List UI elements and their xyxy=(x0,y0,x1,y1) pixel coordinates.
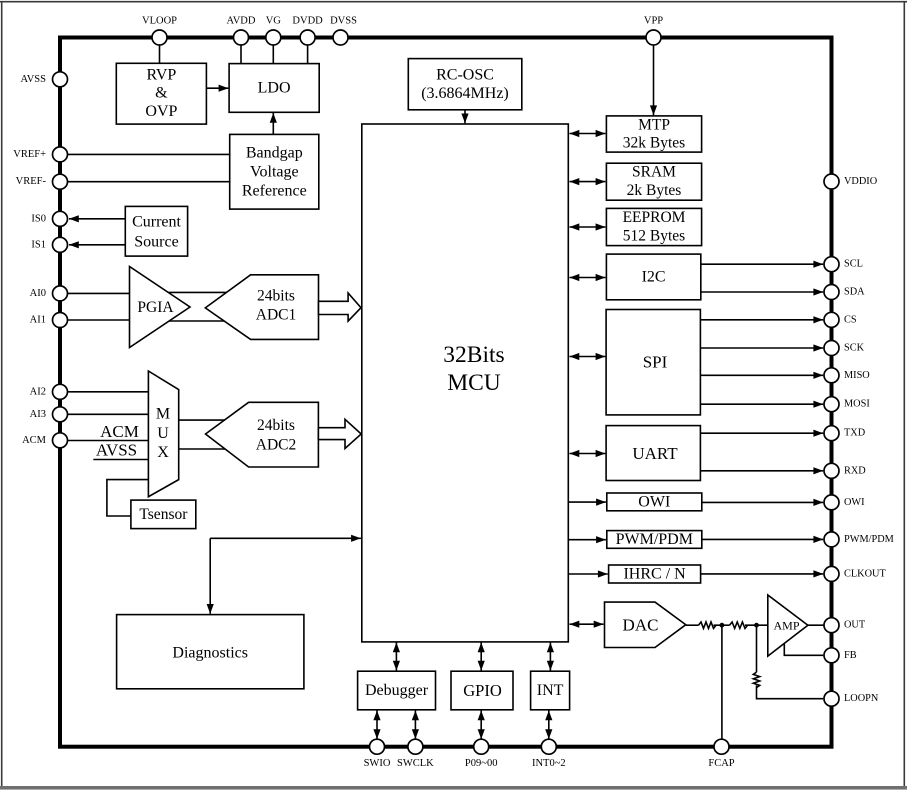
pin FCAP xyxy=(714,739,729,754)
svg-text:IS0: IS0 xyxy=(31,213,46,224)
svg-text:AVSS: AVSS xyxy=(96,441,137,460)
block 32Bits MCU xyxy=(362,124,569,642)
resistor R3 xyxy=(753,672,759,687)
arrow Bandgap to LDO xyxy=(272,113,274,134)
multiplexer MUX xyxy=(148,371,178,497)
svg-text:PWM/PDM: PWM/PDM xyxy=(844,534,894,545)
block Diagnostics xyxy=(117,615,304,689)
svg-text:OWI: OWI xyxy=(844,497,865,508)
pin ACM xyxy=(53,433,68,448)
block Current Source xyxy=(125,206,187,256)
bus MCU-UART xyxy=(570,453,606,455)
block RC-OSC xyxy=(408,59,522,110)
wire DAC output xyxy=(686,624,699,626)
svg-text:TXD: TXD xyxy=(844,428,866,439)
pin DVSS xyxy=(333,30,348,45)
pin PWM/PDM xyxy=(824,532,839,547)
wire VG to LDO xyxy=(272,45,274,64)
pin IS1 xyxy=(53,237,68,252)
arrow MCU to PWM/PDM block xyxy=(568,539,606,541)
wire MUX to ADC2 lower xyxy=(179,448,256,450)
wire AI3 to MUX xyxy=(68,413,149,415)
block SRAM 2k Bytes xyxy=(606,163,701,200)
block OWI xyxy=(607,493,702,511)
bus GPIO-P09~00 xyxy=(480,711,482,740)
svg-text:AI3: AI3 xyxy=(30,409,46,420)
svg-text:VREF-: VREF- xyxy=(16,176,47,187)
svg-text:INT0~2: INT0~2 xyxy=(532,758,566,769)
svg-text:CLKOUT: CLKOUT xyxy=(844,568,886,579)
svg-text:U: U xyxy=(157,425,169,442)
pin DVDD xyxy=(300,30,315,45)
svg-text:24bits: 24bits xyxy=(257,417,295,434)
wire AI1 to PGIA xyxy=(68,319,132,321)
block Debugger xyxy=(358,671,436,710)
svg-text:Reference: Reference xyxy=(242,182,307,199)
block LDO xyxy=(229,64,319,113)
svg-text:ADC2: ADC2 xyxy=(256,437,296,454)
svg-text:32Bits: 32Bits xyxy=(443,342,504,368)
svg-text:SDA: SDA xyxy=(844,287,865,298)
svg-text:VG: VG xyxy=(266,16,282,27)
pin OUT xyxy=(824,618,839,633)
svg-text:RXD: RXD xyxy=(844,465,866,476)
block RVP & OVP xyxy=(116,63,206,124)
arrow node to Diagnostics xyxy=(209,538,211,614)
svg-text:ADC1: ADC1 xyxy=(256,306,296,323)
pin SCL xyxy=(824,257,839,272)
bus MCU-I2C xyxy=(570,277,606,279)
svg-text:GPIO: GPIO xyxy=(463,681,502,700)
pin VG xyxy=(266,30,281,45)
wire AVSS net to MUX xyxy=(93,459,148,461)
pin TXD xyxy=(824,426,839,441)
wire R2 to AMP input xyxy=(745,624,768,626)
bus MCU-SRAM xyxy=(570,181,606,183)
pin AVDD xyxy=(234,30,249,45)
svg-text:SCK: SCK xyxy=(844,343,865,354)
svg-text:VPP: VPP xyxy=(644,16,663,27)
pin SWCLK xyxy=(408,739,423,754)
svg-text:Bandgap: Bandgap xyxy=(246,145,303,162)
svg-text:CS: CS xyxy=(844,314,857,325)
pin AVSS xyxy=(53,72,68,87)
arrow MCU to IHRC/N block xyxy=(568,573,607,575)
bus arrow ADC1 to MCU xyxy=(319,293,362,321)
arrow VPP to MTP xyxy=(653,45,655,115)
svg-text:LOOPN: LOOPN xyxy=(844,693,879,704)
wire VREF+ to Bandgap xyxy=(68,153,230,155)
bus MCU-DAC xyxy=(570,623,604,625)
junction node to FCAP xyxy=(720,623,725,628)
bus Debugger-SWIO xyxy=(376,711,378,740)
arrow UART to TXD xyxy=(700,432,823,434)
svg-text:2k Bytes: 2k Bytes xyxy=(627,182,682,199)
svg-text:Current: Current xyxy=(132,213,181,230)
svg-text:M: M xyxy=(156,406,170,423)
block Bandgap Voltage Reference xyxy=(230,134,319,209)
pin INT0~2 xyxy=(541,739,556,754)
svg-text:DVDD: DVDD xyxy=(292,16,323,27)
svg-text:MOSI: MOSI xyxy=(844,399,870,410)
wire junction down to R3 xyxy=(756,625,758,672)
pin FB xyxy=(824,648,839,663)
pin AI0 xyxy=(53,286,68,301)
pin VREF- xyxy=(53,174,68,189)
pin VLOOP xyxy=(152,30,167,45)
block MTP 32k Bytes xyxy=(606,116,701,152)
pin VPP xyxy=(646,30,661,45)
wire MUX to Tsensor xyxy=(107,480,148,516)
arrow I2C to SDA xyxy=(701,291,823,293)
wire DVDD to LDO xyxy=(307,45,309,64)
wire MUX to ADC2 upper xyxy=(179,419,256,421)
pin VREF+ xyxy=(53,147,68,162)
block 24bits ADC2 xyxy=(206,402,319,467)
svg-text:(3.6864MHz): (3.6864MHz) xyxy=(421,85,509,102)
wire FB feedback xyxy=(784,643,823,655)
pin MOSI xyxy=(824,397,839,412)
arrow I2C to SCL xyxy=(701,263,823,265)
svg-text:FB: FB xyxy=(844,650,857,661)
bus MCU-GPIO xyxy=(480,643,482,671)
pin SCK xyxy=(824,341,839,356)
svg-text:Tsensor: Tsensor xyxy=(139,506,188,523)
bus arrow ADC2 to MCU xyxy=(318,419,361,448)
junction node to R3 branch xyxy=(754,623,759,628)
arrow node to MCU (diagnostics) xyxy=(210,537,361,539)
pin MISO xyxy=(824,368,839,383)
amplifier AMP xyxy=(768,595,808,656)
pin CLKOUT xyxy=(824,566,839,581)
arrow PWM/PDM block to PWM/PDM pin xyxy=(702,538,823,540)
svg-text:DVSS: DVSS xyxy=(330,16,357,27)
svg-text:VREF+: VREF+ xyxy=(13,149,46,160)
svg-text:PWM/PDM: PWM/PDM xyxy=(616,531,693,548)
bus Debugger-SWCLK xyxy=(414,711,416,740)
svg-text:MCU: MCU xyxy=(447,370,501,396)
outer page frame xyxy=(0,1,907,3)
block DAC xyxy=(605,602,686,647)
wire ACM to MUX xyxy=(68,440,149,442)
wire AVDD to LDO xyxy=(240,45,242,64)
svg-text:PGIA: PGIA xyxy=(137,299,174,316)
block GPIO xyxy=(451,671,513,710)
svg-text:512 Bytes: 512 Bytes xyxy=(623,227,685,244)
block Tsensor xyxy=(131,500,196,528)
svg-text:VLOOP: VLOOP xyxy=(142,16,177,27)
arrow SPI to SCK xyxy=(700,347,823,349)
pin LOOPN xyxy=(824,691,839,706)
pin CS xyxy=(824,312,839,327)
arrow UART to RXD xyxy=(700,470,823,472)
svg-text:SRAM: SRAM xyxy=(632,164,676,181)
bus MCU-EEPROM xyxy=(570,226,606,228)
resistor R2 xyxy=(730,622,748,628)
arrow Current Source to IS0 xyxy=(69,218,125,220)
svg-text:INT: INT xyxy=(537,682,564,699)
wire VREF- to Bandgap xyxy=(68,181,230,183)
arrow SPI to MOSI xyxy=(700,403,823,405)
arrow Current Source to IS1 xyxy=(69,244,125,246)
svg-text:I2C: I2C xyxy=(642,269,666,286)
wire R1 to R2 xyxy=(714,624,730,626)
pin P09~00 xyxy=(474,739,489,754)
svg-text:OUT: OUT xyxy=(844,620,866,631)
block 24bits ADC1 xyxy=(205,275,318,340)
svg-text:Voltage: Voltage xyxy=(250,164,299,181)
arrow SPI to CS xyxy=(700,319,823,321)
svg-text:&: & xyxy=(155,85,168,102)
bus MCU-MTP xyxy=(570,133,606,135)
svg-text:FCAP: FCAP xyxy=(708,758,734,769)
wire AMP output to OUT xyxy=(808,624,824,626)
svg-text:AVSS: AVSS xyxy=(21,74,47,85)
svg-text:IS1: IS1 xyxy=(31,239,46,250)
wire AI0 to PGIA xyxy=(68,292,132,294)
block SPI xyxy=(606,310,700,415)
svg-text:IHRC / N: IHRC / N xyxy=(623,566,686,583)
wire AI2 to MUX xyxy=(68,391,149,393)
pin SWIO xyxy=(370,739,385,754)
wire PGIA to ADC1 lower xyxy=(168,320,256,322)
chip boundary frame xyxy=(60,38,832,747)
wire junction to FCAP xyxy=(721,625,723,739)
svg-text:ACM: ACM xyxy=(22,435,47,446)
svg-text:SWCLK: SWCLK xyxy=(397,758,434,769)
pin SDA xyxy=(824,285,839,300)
resistor R1 xyxy=(699,622,717,628)
block PWM/PDM xyxy=(607,531,702,549)
svg-text:VDDIO: VDDIO xyxy=(844,176,878,187)
svg-text:SCL: SCL xyxy=(844,259,863,270)
svg-text:MISO: MISO xyxy=(844,370,870,381)
svg-text:RVP: RVP xyxy=(146,67,176,84)
block EEPROM 512 Bytes xyxy=(606,208,701,245)
svg-text:OVP: OVP xyxy=(145,103,177,120)
svg-text:AI2: AI2 xyxy=(30,386,46,397)
pin IS0 xyxy=(53,211,68,226)
svg-text:MTP: MTP xyxy=(638,117,670,134)
arrow IHRC/N to CLKOUT xyxy=(701,573,824,575)
svg-text:SPI: SPI xyxy=(643,353,668,372)
svg-text:X: X xyxy=(157,444,169,461)
svg-text:24bits: 24bits xyxy=(257,288,295,305)
block I2C xyxy=(606,254,700,300)
pin RXD xyxy=(824,463,839,478)
bus MCU-INT xyxy=(549,643,551,671)
svg-text:32k Bytes: 32k Bytes xyxy=(623,135,685,152)
arrow SPI to MISO xyxy=(700,374,823,376)
arrow OWI block to OWI pin xyxy=(702,501,823,503)
svg-text:AMP: AMP xyxy=(773,618,799,632)
svg-text:SWIO: SWIO xyxy=(364,758,391,769)
svg-text:EEPROM: EEPROM xyxy=(623,209,686,226)
block INT xyxy=(531,671,570,710)
svg-text:Diagnostics: Diagnostics xyxy=(172,644,248,661)
svg-text:AI0: AI0 xyxy=(30,288,46,299)
svg-text:Debugger: Debugger xyxy=(365,682,429,699)
wire R3 to LOOPN xyxy=(757,685,824,698)
svg-text:AI1: AI1 xyxy=(30,315,46,326)
arrow MCU to OWI block xyxy=(568,501,606,503)
svg-text:OWI: OWI xyxy=(638,493,670,510)
block UART xyxy=(606,426,700,481)
amplifier PGIA xyxy=(130,267,191,348)
svg-text:RC-OSC: RC-OSC xyxy=(436,67,494,84)
svg-text:DAC: DAC xyxy=(623,615,659,634)
pin AI2 xyxy=(53,384,68,399)
wire PGIA to ADC1 upper xyxy=(168,291,256,293)
svg-text:UART: UART xyxy=(632,444,678,463)
svg-text:P09~00: P09~00 xyxy=(465,758,498,769)
svg-text:LDO: LDO xyxy=(258,80,291,97)
pin AI1 xyxy=(53,313,68,328)
svg-text:ACM: ACM xyxy=(100,422,139,441)
bus MCU-Debugger xyxy=(395,643,397,671)
block IHRC / N xyxy=(609,565,701,583)
pin VDDIO xyxy=(824,174,839,189)
pin OWI xyxy=(824,495,839,510)
arrow RC-OSC to MCU xyxy=(464,110,466,124)
wire VLOOP to RVP/OVP xyxy=(159,45,161,63)
pin AI3 xyxy=(53,407,68,422)
bus MCU-SPI xyxy=(570,356,606,358)
bus INT-INT0~2 xyxy=(548,711,550,740)
svg-text:Source: Source xyxy=(134,234,178,251)
svg-text:AVDD: AVDD xyxy=(227,16,256,27)
arrow RVP/OVP to LDO xyxy=(206,87,228,89)
